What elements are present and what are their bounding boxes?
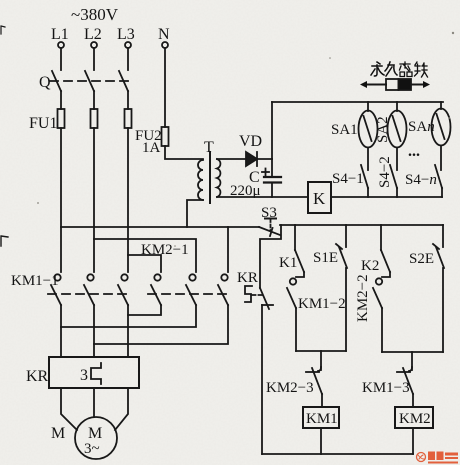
contact K2: [381, 225, 390, 277]
fuse FU1 pole3: [125, 109, 132, 128]
svg-text:K: K: [313, 189, 326, 208]
svg-text:K2: K2: [361, 258, 379, 274]
thermal relay KR box: [49, 357, 139, 388]
contact KM2-3: [306, 367, 322, 407]
wire KM1 to bottom rail: [320, 428, 322, 454]
svg-text:L3: L3: [117, 26, 135, 43]
contact K1: [295, 225, 304, 277]
wire KM2-1 out pole2 to line1: [61, 305, 196, 327]
relay coil K: [308, 182, 331, 213]
wire secondary bottom to relay K: [217, 196, 308, 198]
wire node up to SA rail: [271, 102, 273, 159]
thermal contact KR: [237, 270, 273, 309]
reed switch SA1: [359, 102, 378, 148]
magnet symbol: [360, 79, 430, 90]
svg-text:S4−1: S4−1: [332, 171, 364, 187]
wire Q to FU1 pole3: [127, 91, 129, 109]
contact KM1-1 pole1: [51, 274, 61, 305]
wire L3 drop to switch: [127, 48, 129, 70]
reed switch SAn: [432, 102, 451, 146]
svg-text:KM1: KM1: [306, 411, 338, 427]
wire L1 rail drop to contact 6: [227, 227, 229, 272]
wire branch join 2: [382, 351, 443, 353]
svg-text:S4−n: S4−n: [405, 172, 437, 188]
wire motor line 3: [127, 305, 129, 357]
node L2: [84, 26, 102, 48]
switch S4-2: [390, 148, 397, 198]
contact KM1-2: [287, 278, 296, 351]
contact KM2-1 pole2: [186, 274, 196, 305]
wire SA top rail: [272, 101, 443, 103]
scan artifact left edge top: [1, 26, 5, 34]
wire S3 node down jog to KR: [260, 225, 281, 288]
switch Q linkage dashed: [50, 80, 130, 82]
wire KR to motor left: [61, 388, 77, 430]
svg-text:KM2−3: KM2−3: [266, 380, 314, 396]
wire N drop to fuse FU2: [164, 48, 166, 127]
wire L3 phase down: [127, 128, 129, 272]
wire L1 phase down: [60, 128, 62, 272]
switch Q pole 1: [52, 71, 61, 91]
wire KM2-1 out pole3 to line2: [94, 305, 228, 344]
node N: [158, 26, 170, 48]
node L3: [117, 26, 135, 48]
wire L2 drop to switch: [93, 48, 95, 70]
limit switch S2E: [433, 225, 444, 352]
node L1: [51, 26, 69, 48]
label +: [262, 169, 269, 176]
svg-text:N: N: [158, 26, 170, 43]
wire control tap rail from L1: [61, 226, 259, 228]
svg-text:KM1−1: KM1−1: [11, 273, 59, 289]
reed switch SA2: [388, 102, 407, 148]
wire primary bottom to L1 rail: [187, 200, 203, 227]
pushbutton S3: [259, 205, 280, 236]
svg-text:SA2: SA2: [375, 116, 391, 143]
wire KR down to bottom rail: [261, 305, 263, 454]
svg-text:K1: K1: [279, 255, 297, 271]
switch Q pole 3: [119, 71, 128, 91]
svg-text:KM2−1: KM2−1: [141, 242, 189, 258]
wire Q to FU1 pole1: [60, 91, 62, 109]
wire control rail right of S3: [280, 224, 443, 226]
wire KM2-1 out pole1 to line3: [128, 305, 161, 315]
svg-text:L2: L2: [84, 26, 102, 43]
contact KM2-1 pole3: [218, 274, 228, 305]
svg-text:M: M: [88, 425, 102, 442]
wire secondary top to diode: [217, 158, 246, 160]
svg-text:S1E: S1E: [313, 250, 338, 266]
wire branch join 1: [296, 350, 346, 352]
wire L2 tap rail: [94, 239, 196, 272]
svg-text:KM1−3: KM1−3: [362, 380, 410, 396]
svg-text:SAn: SAn: [408, 119, 435, 135]
wire bottom return rail: [262, 453, 413, 455]
fuse FU1 pole2: [91, 109, 98, 128]
svg-text:L1: L1: [51, 26, 69, 43]
svg-text:M: M: [51, 425, 65, 442]
label permanent magnet: [371, 62, 428, 77]
svg-text:FU1: FU1: [29, 115, 57, 132]
svg-text:3~: 3~: [84, 441, 100, 457]
svg-text:...: ...: [408, 143, 420, 160]
limit switch S1E: [336, 225, 347, 351]
wire join2 drop: [411, 352, 413, 370]
switch S4-n: [435, 146, 442, 198]
transformer T secondary winding: [217, 159, 220, 197]
coil KM2: [395, 407, 433, 428]
coil KM1: [303, 407, 339, 428]
fuse FU1 pole1: [58, 109, 65, 128]
transformer T primary winding: [198, 160, 203, 200]
contact KM1-1 pole2: [84, 274, 94, 305]
wire L2 phase down: [93, 128, 95, 272]
scan artifact left edge: [1, 236, 8, 246]
svg-text:SA1: SA1: [331, 122, 358, 138]
scan speckles: [37, 32, 454, 247]
switch Q pole 2: [85, 71, 94, 91]
svg-text:KM2−2: KM2−2: [355, 274, 371, 322]
wire K to S4 contacts: [331, 196, 442, 198]
wire KM2 to bottom rail: [412, 428, 414, 454]
svg-text:KM1−2: KM1−2: [298, 296, 346, 312]
contact KM2-2: [373, 278, 382, 352]
contact KM1-1 pole3: [118, 274, 128, 305]
wire Q to FU1 pole2: [93, 91, 95, 109]
svg-text:KR: KR: [26, 368, 49, 385]
watermark logo: [417, 452, 459, 464]
wire L1 drop to switch: [60, 48, 62, 70]
transformer T core: [209, 152, 211, 203]
linkage KM1-1 dashed: [48, 293, 130, 295]
fuse FU2: [162, 127, 169, 146]
svg-text:1A: 1A: [142, 140, 161, 156]
svg-text:KR: KR: [237, 270, 258, 286]
svg-text:Q: Q: [39, 74, 51, 91]
wire motor line 1: [60, 305, 62, 357]
svg-text:~380V: ~380V: [71, 5, 119, 24]
contact KM1-3: [397, 367, 413, 407]
svg-text:S4−2: S4−2: [377, 156, 393, 188]
label FU2 1A: [135, 128, 162, 156]
wire KR to motor mid: [93, 388, 95, 417]
svg-text:VD: VD: [239, 133, 262, 150]
svg-text:3: 3: [80, 367, 88, 384]
capacitor C 220u: [264, 159, 281, 197]
wire N to transformer: [165, 146, 203, 159]
contact KM2-1 pole1: [151, 274, 161, 305]
svg-text:T: T: [204, 139, 214, 156]
linkage KM2-1 dashed: [148, 293, 230, 295]
wire L3 tap bridge: [128, 255, 161, 272]
svg-text:KM2: KM2: [399, 411, 431, 427]
wire KR to motor right: [115, 388, 128, 430]
wire motor line 2: [93, 305, 95, 357]
svg-text:S2E: S2E: [409, 251, 434, 267]
motor M: [75, 417, 117, 459]
wire join1 drop: [320, 351, 322, 370]
diode VD: [246, 152, 272, 166]
switch S4-1: [361, 148, 368, 198]
